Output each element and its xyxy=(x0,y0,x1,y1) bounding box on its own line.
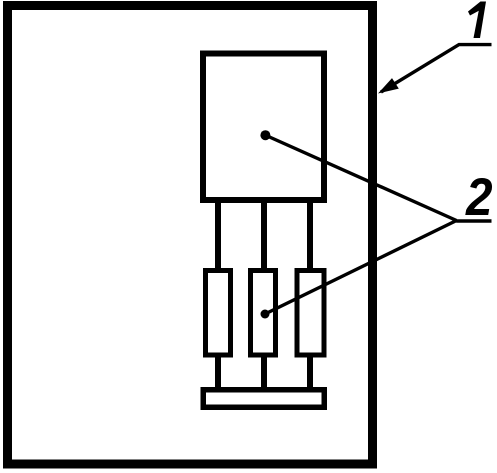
svg-text:2: 2 xyxy=(465,167,492,227)
